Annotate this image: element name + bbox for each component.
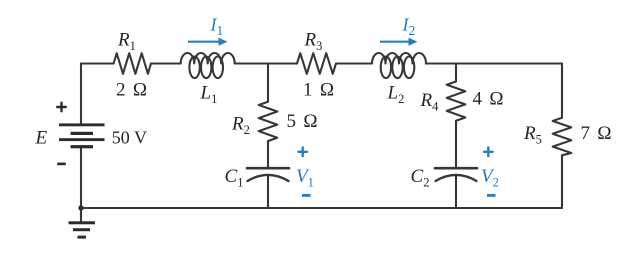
resistor R2 bbox=[259, 102, 278, 141]
wire R4 to C2 bbox=[455, 121, 457, 167]
junction dot ground node bbox=[78, 205, 83, 210]
capacitor C1 bbox=[247, 168, 289, 208]
resistor R4 bbox=[447, 82, 466, 121]
svg-text:E: E bbox=[35, 128, 48, 149]
wire R2 to C1 bbox=[267, 141, 269, 167]
svg-text:50 V: 50 V bbox=[112, 128, 147, 148]
wire bottom rail bbox=[81, 207, 562, 209]
resistor R1 bbox=[114, 53, 151, 74]
wire branch R4 top lead bbox=[455, 64, 457, 82]
inductor L2 bbox=[372, 53, 426, 78]
wire left vertical bottom (E bottom lead) bbox=[80, 148, 82, 209]
wire L2 to top-right corner (node B junction at x=456) bbox=[426, 62, 562, 64]
V2 plus sign bbox=[484, 148, 493, 157]
capacitor C2 bbox=[435, 168, 477, 208]
V1 plus sign bbox=[298, 148, 307, 157]
battery minus sign bbox=[57, 163, 66, 166]
battery plus sign bbox=[57, 103, 66, 112]
current arrow I1 bbox=[188, 38, 228, 46]
wire R5 bottom lead bbox=[561, 155, 563, 208]
wire top left segment bbox=[81, 62, 114, 64]
current arrow I2 bbox=[380, 38, 418, 46]
resistor R3 bbox=[297, 53, 336, 74]
wire R3 to L2 bbox=[336, 62, 372, 64]
battery E plates bbox=[59, 123, 105, 148]
resistor R5 bbox=[553, 118, 572, 156]
wire left vertical top (E top lead) bbox=[80, 64, 82, 125]
wire branch R2 top lead bbox=[267, 64, 269, 102]
wire ground stub bbox=[80, 208, 82, 222]
ground bbox=[69, 221, 96, 238]
wire right vertical top (R5 top lead) bbox=[561, 64, 563, 118]
wire R1 to L1 bbox=[151, 62, 181, 64]
V2 minus sign bbox=[487, 194, 496, 197]
wire L1 to R3 (node A junction at x=268) bbox=[235, 62, 297, 64]
inductor L1 bbox=[181, 53, 235, 78]
V1 minus sign bbox=[302, 194, 311, 197]
